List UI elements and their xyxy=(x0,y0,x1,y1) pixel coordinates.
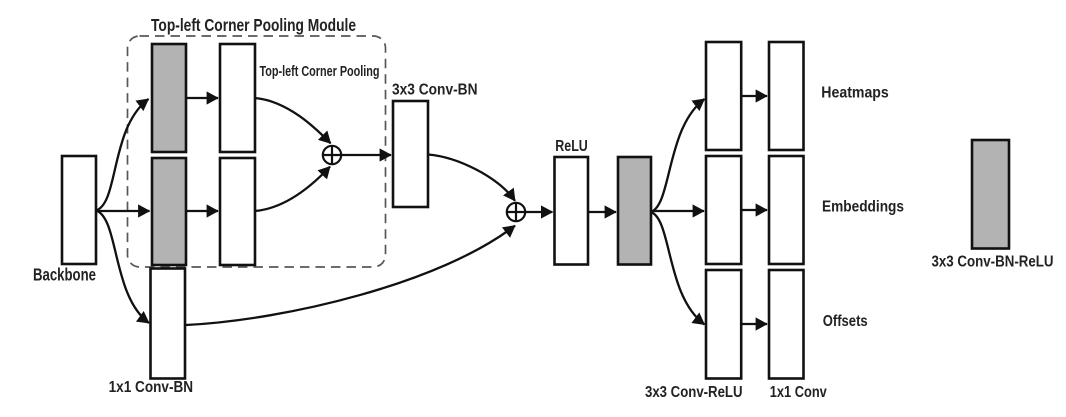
svg-text:Embeddings: Embeddings xyxy=(822,199,904,216)
pool branch2 pooling box (white) xyxy=(220,158,255,265)
wire white1 to adder (curved down) xyxy=(255,98,331,143)
wire offset conv to 1x1 xyxy=(741,323,767,325)
wire adder to 3x3 conv-bn xyxy=(342,154,392,156)
svg-text:Top-left Corner Pooling Module: Top-left Corner Pooling Module xyxy=(151,15,356,35)
offset 1x1 box xyxy=(769,270,804,379)
wire conv-bn-relu to heatmap branch (curved up) xyxy=(651,99,705,212)
svg-text:3x3 Conv-BN-ReLU: 3x3 Conv-BN-ReLU xyxy=(932,254,1054,271)
wire pool gray1 to white1 xyxy=(186,97,218,99)
wire relu to conv-bn-relu xyxy=(588,211,616,213)
embedding conv box xyxy=(706,156,741,264)
3x3 conv-bn-relu box (gray) xyxy=(618,157,651,265)
wire main adder to relu xyxy=(526,211,553,213)
dashed module boundary xyxy=(128,36,386,267)
1x1 conv-bn box xyxy=(151,269,186,379)
wire heatmap conv to 1x1 xyxy=(741,95,767,97)
svg-text:Offsets: Offsets xyxy=(823,313,868,330)
svg-text:Backbone: Backbone xyxy=(33,265,96,285)
3x3 conv-bn box xyxy=(393,101,428,207)
offset conv box xyxy=(706,270,741,379)
svg-text:3x3 Conv-BN: 3x3 Conv-BN xyxy=(392,82,478,99)
wire conv-bn-relu to offset branch (curved down) xyxy=(651,212,705,325)
wire pool gray2 to white2 xyxy=(186,210,218,212)
wire conv-bn-relu to embedding branch (straight) xyxy=(651,210,704,212)
adder node (main) xyxy=(507,203,525,221)
wire 3x3 conv-bn to main adder (curved down) xyxy=(428,155,515,201)
heatmap 1x1 box xyxy=(769,42,804,150)
pool branch2 conv box (gray) xyxy=(152,158,186,265)
svg-text:Top-left Corner Pooling: Top-left Corner Pooling xyxy=(260,64,380,80)
wire backbone to pool branch2 (straight) xyxy=(96,210,150,212)
svg-text:Heatmaps: Heatmaps xyxy=(821,85,889,102)
svg-text:1x1 Conv-BN: 1x1 Conv-BN xyxy=(109,379,194,396)
wire embedding conv to 1x1 xyxy=(741,209,767,211)
pool branch1 conv box (gray) xyxy=(152,44,186,152)
embedding 1x1 box xyxy=(769,156,804,264)
legend box 3x3 conv-bn-relu (gray) xyxy=(972,140,1009,249)
pool branch1 pooling box (white) xyxy=(220,44,255,152)
svg-text:1x1 Conv: 1x1 Conv xyxy=(770,384,827,401)
wire backbone to pool branch1 (curved up) xyxy=(96,99,149,211)
svg-text:3x3 Conv-ReLU: 3x3 Conv-ReLU xyxy=(645,384,743,401)
backbone box xyxy=(62,156,96,264)
wire 1x1 conv-bn to main adder (long curve) xyxy=(186,226,515,325)
wire white2 to adder (curved up) xyxy=(255,167,330,211)
wire backbone to 1x1 conv-bn (curved down) xyxy=(96,211,149,324)
adder node (pooling module) xyxy=(323,146,341,164)
heatmap conv box xyxy=(706,42,741,150)
svg-text:ReLU: ReLU xyxy=(555,138,588,155)
relu box xyxy=(555,157,589,265)
